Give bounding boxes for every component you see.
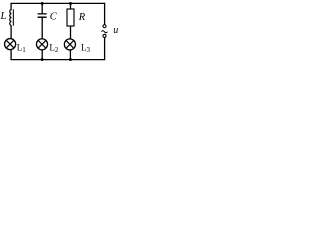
wire left branch mid	[10, 26, 12, 39]
svg-text:C: C	[50, 12, 58, 23]
wire capacitor branch lower	[41, 50, 43, 60]
svg-text:L2: L2	[49, 42, 59, 54]
resistor R box	[67, 9, 74, 26]
wire resistor branch upper	[70, 3, 72, 9]
wire left branch lower	[10, 50, 12, 60]
source tilde	[101, 31, 107, 33]
capacitor C bottom plate	[38, 16, 47, 18]
wire capacitor branch upper	[41, 3, 43, 13]
lamp L2	[36, 39, 47, 50]
wire capacitor branch mid	[41, 17, 43, 39]
lamp L1	[5, 39, 16, 50]
svg-text:R: R	[78, 12, 86, 23]
junction node bottom C	[41, 58, 44, 61]
svg-text:L3: L3	[81, 42, 91, 54]
wire top horizontal	[10, 2, 105, 4]
svg-text:L1: L1	[17, 42, 27, 54]
junction node top C	[41, 2, 44, 5]
wire resistor branch lower	[69, 50, 71, 60]
inductor L core bar	[12, 9, 14, 25]
junction node bottom R	[69, 58, 72, 61]
source terminal upper	[103, 25, 106, 28]
capacitor C top plate	[38, 13, 47, 15]
wire bottom horizontal	[10, 59, 105, 61]
svg-text:L: L	[0, 11, 7, 22]
svg-text:u: u	[113, 25, 118, 36]
inductor L coil bumps	[10, 10, 12, 26]
wire resistor branch mid	[70, 26, 72, 39]
wire right vertical lower	[104, 37, 106, 59]
junction node top R	[69, 2, 72, 5]
wire left branch upper	[10, 3, 12, 10]
wire right vertical upper	[104, 3, 106, 24]
source terminal lower	[103, 34, 106, 37]
lamp L3	[64, 39, 75, 50]
